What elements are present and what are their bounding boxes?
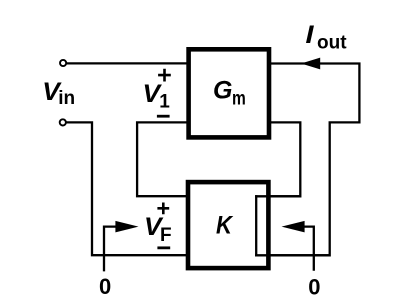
label VF minus <box>157 246 170 249</box>
wire K right upper horizontal over block edge <box>255 195 300 197</box>
block K <box>188 182 268 268</box>
svg-text:m: m <box>232 88 246 109</box>
svg-text:I: I <box>306 21 315 49</box>
svg-text:G: G <box>213 77 232 105</box>
wire Gm lower-left to K upper-left (V1- to VF+) <box>137 122 188 196</box>
terminal Vin- <box>60 119 66 125</box>
svg-text:0: 0 <box>99 274 111 299</box>
wire Vin- terminal to K lower-left (VF-) <box>64 122 188 255</box>
arrow right zero pointing left <box>282 221 305 233</box>
wire K right inner vertical (short across K output) <box>255 195 257 256</box>
svg-text:in: in <box>58 88 75 109</box>
wire Gm output loop through K right side <box>256 64 359 256</box>
svg-text:0: 0 <box>308 275 320 300</box>
svg-text:K: K <box>216 212 234 240</box>
label V1 plus <box>158 69 171 82</box>
label V1 minus <box>157 115 170 118</box>
terminal Vin+ <box>60 60 66 66</box>
svg-text:out: out <box>317 33 347 54</box>
wire left zero probe <box>104 227 120 272</box>
arrow left zero pointing right <box>115 221 138 233</box>
arrow Iout pointing left <box>301 58 320 70</box>
block Gm <box>189 49 269 137</box>
wire K right lower horizontal over block edge <box>255 254 330 256</box>
svg-text:F: F <box>160 225 172 246</box>
label VF plus <box>157 203 169 215</box>
wire right zero probe <box>300 227 314 271</box>
wire top input Vin+ to Gm <box>66 62 188 64</box>
svg-text:1: 1 <box>159 91 170 112</box>
